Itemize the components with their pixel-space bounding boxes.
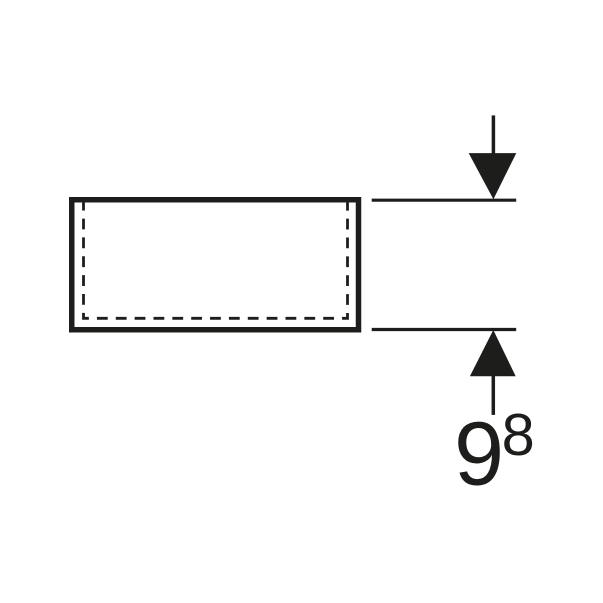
- outer solid rectangle: [72, 200, 359, 330]
- bottom extension line: [372, 328, 517, 331]
- bottom dimension arrow shaft: [492, 374, 496, 415]
- dashed inner rectangle (hidden top edge under top border): [84, 200, 348, 318]
- svg-text:9: 9: [454, 405, 504, 505]
- bottom dimension arrowhead (up): [470, 330, 516, 376]
- svg-text:8: 8: [502, 401, 535, 468]
- top dimension arrowhead (down): [469, 153, 517, 199]
- top extension line: [372, 199, 517, 202]
- top dimension arrow shaft: [492, 115, 496, 160]
